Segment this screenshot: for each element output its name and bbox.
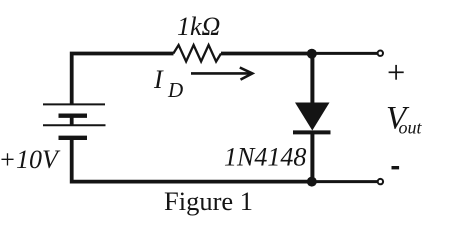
svg-text:out: out xyxy=(399,118,423,138)
wire: right branch lower (diode cathode lead) xyxy=(310,132,314,181)
svg-text:1N4148: 1N4148 xyxy=(224,143,306,172)
svg-text:1kΩ: 1kΩ xyxy=(177,12,220,41)
battery B1: lower thick plate xyxy=(59,136,88,140)
diode D1 1N4148: anode triangle xyxy=(295,103,330,131)
node: bottom junction dot xyxy=(307,177,317,187)
wire: stub to - output terminal xyxy=(312,180,378,183)
svg-text:D: D xyxy=(167,78,183,102)
svg-text:Figure 1: Figure 1 xyxy=(164,186,253,216)
wire: left rail lower + bottom rail (bottom-left corner) xyxy=(72,138,312,182)
wire: top rail right segment xyxy=(221,52,312,56)
terminal: + output open circle xyxy=(378,51,383,56)
battery B1: top thin plate xyxy=(43,103,105,105)
wire: stub to + output terminal xyxy=(312,52,378,55)
battery B1: lower thin plate xyxy=(43,124,106,126)
resistor R1 1kOhm zigzag xyxy=(173,45,221,62)
battery B1: internal connecting stub xyxy=(70,116,74,126)
wire: right branch upper (diode anode lead) xyxy=(310,54,314,105)
battery B1: upper thick plate xyxy=(59,113,88,117)
label: - polarity mark xyxy=(392,166,400,169)
svg-text:I: I xyxy=(153,65,164,94)
current arrow ID xyxy=(191,72,251,75)
node: top junction dot xyxy=(307,49,317,59)
diode D1: cathode bar xyxy=(293,130,331,134)
label: + polarity mark xyxy=(389,71,404,73)
terminal: - output open circle xyxy=(378,179,383,184)
svg-text:+10V: +10V xyxy=(0,145,61,174)
wire: top-left corner (left rail upper + top rail left segment) xyxy=(72,54,174,105)
